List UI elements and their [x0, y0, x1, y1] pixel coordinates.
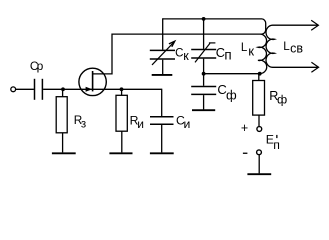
wire Ru to ground — [121, 131, 123, 152]
wire rail down to Ck — [162, 18, 164, 50]
capacitor Cf plates — [191, 87, 216, 95]
resistor Rf — [253, 81, 265, 116]
resistor R3 — [56, 97, 67, 133]
wire Rz to ground — [62, 133, 64, 153]
junction node source/Ru — [120, 87, 124, 91]
svg-text:св: св — [290, 41, 303, 55]
svg-text:п: п — [273, 138, 280, 152]
wire rail down to Cpod — [203, 19, 205, 49]
wire Lk to Rf — [258, 74, 260, 81]
drain wire up and right to coil tap — [93, 34, 260, 74]
Ck arrowhead — [169, 41, 175, 47]
transistor VT circle — [79, 68, 106, 95]
svg-text:з: з — [81, 118, 86, 130]
junction node Cpod/Cf — [202, 72, 206, 76]
wire Cf to ground — [203, 95, 205, 109]
transistor channel bar — [92, 71, 94, 91]
junction node Lk/Rf — [258, 72, 262, 76]
svg-text:к: к — [183, 49, 189, 63]
plus terminal — [257, 127, 262, 132]
capacitor Cpod plates — [191, 50, 216, 59]
svg-text:и: и — [184, 117, 191, 131]
wire Ck to ground — [162, 60, 164, 74]
ground under Cf — [192, 109, 215, 111]
wire Cu to ground — [161, 125, 163, 152]
capacitor Cp — [35, 79, 43, 100]
output wire top with arrow — [273, 24, 319, 26]
wire Cpod down through node to Cf — [203, 59, 205, 86]
svg-text:С: С — [175, 47, 183, 59]
svg-text:к: к — [248, 44, 254, 59]
svg-text:+: + — [241, 121, 248, 135]
ground under Ru — [109, 152, 132, 154]
Ck variable arrow — [152, 41, 175, 65]
wire node to Rf node — [204, 73, 260, 75]
Cpod trimmer diagonal — [195, 43, 210, 62]
svg-text:р: р — [37, 59, 44, 73]
svg-text:ф: ф — [226, 87, 237, 102]
ground under Cu — [150, 152, 174, 154]
capacitor Cu plates — [150, 117, 174, 125]
svg-text:и: и — [137, 117, 144, 131]
wire input to Cp — [16, 88, 34, 90]
wire Cp to gate and source wire (one line through transistor) — [43, 88, 162, 90]
En prime mark — [276, 135, 277, 138]
svg-text:п: п — [224, 48, 231, 63]
wire node to Rz — [62, 89, 64, 96]
transistor gate arrow — [86, 87, 93, 92]
inductor Lsv coil — [266, 25, 274, 67]
top rail — [163, 18, 260, 20]
ground under minus terminal — [247, 173, 271, 175]
wire minus terminal to ground — [258, 155, 260, 173]
resistor Ru — [116, 95, 127, 131]
Cpod trimmer tick — [209, 42, 216, 44]
junction node gate/Rz — [61, 87, 65, 91]
minus terminal — [257, 150, 262, 155]
input terminal — [11, 87, 16, 92]
label minus — [243, 153, 248, 154]
svg-text:ф: ф — [277, 93, 287, 107]
wire node to Ru — [121, 89, 123, 95]
inductor Lk coil — [258, 19, 267, 74]
ground under Ck — [152, 74, 173, 76]
wire Rf to plus terminal — [258, 115, 260, 126]
junction node rail/Cpod — [202, 17, 206, 21]
svg-text:L: L — [241, 42, 248, 54]
capacitor Ck plates — [150, 50, 175, 59]
ground under R3 — [52, 152, 76, 154]
wire down to Cu — [161, 89, 163, 116]
output wire bottom with arrow — [273, 66, 319, 68]
